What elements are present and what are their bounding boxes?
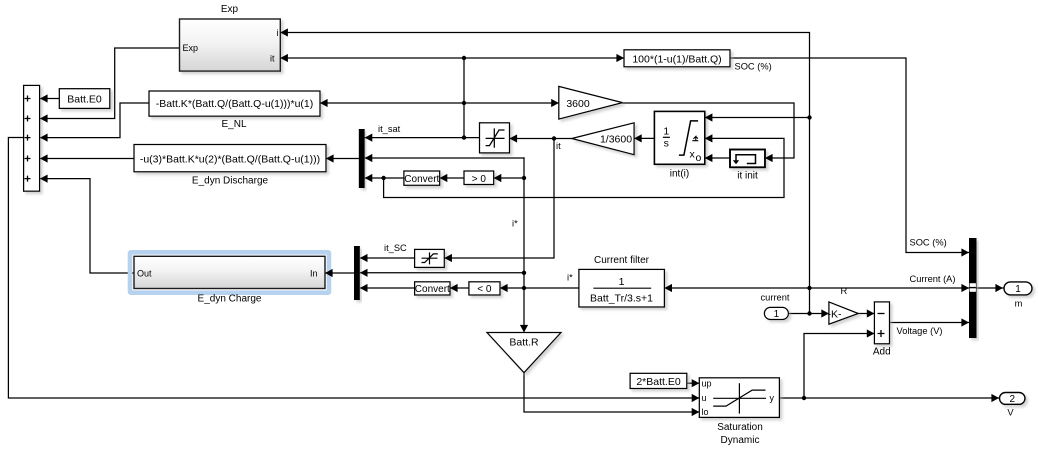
arrowhead into greater than bbox=[494, 174, 502, 182]
arrowheads into output mux bbox=[961, 248, 969, 256]
arrowhead into it init bbox=[765, 154, 773, 162]
svg-text:1: 1 bbox=[619, 276, 625, 288]
mux it_sat bbox=[359, 129, 365, 188]
subsystem Exp bbox=[180, 19, 281, 71]
svg-text:s: s bbox=[664, 138, 669, 150]
wire SOC Fcn output to output mux input 1 bbox=[730, 58, 969, 253]
wire it_sat line to Exp it input and SOC Fcn bbox=[280, 57, 624, 59]
arrowhead into E_dyn Discharge bbox=[326, 154, 334, 162]
svg-text:Current (A): Current (A) bbox=[910, 274, 956, 284]
arrowheads into mux it_SC bbox=[360, 254, 368, 262]
arrowhead into E_NL bbox=[320, 99, 328, 107]
wire it_SC saturation output to mux it_SC input 1 bbox=[360, 257, 415, 259]
svg-text:it init: it init bbox=[737, 171, 758, 182]
gain R (-K-) bbox=[828, 302, 859, 324]
subsystem E_dyn Charge selection highlight bbox=[130, 252, 329, 292]
Fcn SOC bbox=[624, 50, 730, 67]
arrowhead into 3600 gain bbox=[551, 99, 559, 107]
svg-text:E_dyn Charge: E_dyn Charge bbox=[198, 294, 262, 305]
sum block bbox=[24, 85, 40, 191]
svg-text:2*Batt.E0: 2*Batt.E0 bbox=[636, 376, 681, 388]
svg-text:E_dyn Discharge: E_dyn Discharge bbox=[192, 175, 269, 186]
svg-text:Dynamic: Dynamic bbox=[721, 435, 760, 446]
svg-text:3600: 3600 bbox=[566, 98, 590, 110]
wire E_dyn Charge Out to sum input 5 bbox=[40, 179, 134, 273]
wire y branch to Add plus input bbox=[804, 334, 874, 399]
svg-text:> 0: > 0 bbox=[472, 174, 487, 185]
constant Batt.E0 bbox=[59, 89, 110, 109]
svg-text:< 0: < 0 bbox=[477, 284, 492, 295]
wire sum output to Saturation Dynamic u input bbox=[8, 138, 699, 399]
wire 3600 gain output to it init input bbox=[623, 103, 795, 158]
svg-text:y: y bbox=[770, 393, 775, 403]
svg-text:V: V bbox=[1007, 408, 1014, 418]
wire mux it_sat output to E_dyn Discharge input bbox=[326, 158, 359, 160]
arrowhead into Exp i bbox=[280, 28, 288, 36]
arrowhead into R gain bbox=[821, 309, 829, 317]
arrowhead into Batt.R bbox=[520, 325, 528, 333]
outport 2 V bbox=[1000, 393, 1026, 406]
integrator int(i) bbox=[654, 111, 704, 164]
arrowhead into outport m bbox=[995, 284, 1003, 292]
arrowhead into outport V bbox=[991, 394, 999, 402]
wire R gain output to Add minus input bbox=[858, 313, 874, 315]
wire current inport to R gain bbox=[788, 313, 829, 315]
arrowhead into Convert2 bbox=[450, 284, 458, 292]
wire Convert2 output to mux it_SC input 3 bbox=[360, 287, 415, 289]
data type Convert bbox=[404, 171, 440, 185]
wire Batt.R output to Saturation Dynamic lo input bbox=[524, 373, 699, 412]
wire i* to mux it_sat input 2 bbox=[365, 157, 524, 159]
output mux bbox=[969, 238, 977, 338]
svg-text:R: R bbox=[841, 286, 848, 296]
svg-text:u: u bbox=[702, 393, 707, 403]
wire 2*Batt.E0 output to Saturation Dynamic up input bbox=[687, 382, 699, 384]
wire Exp subsystem output to sum input 2 bbox=[40, 48, 180, 119]
svg-text:1/3600: 1/3600 bbox=[600, 134, 632, 146]
wire E_dyn Discharge output to sum input 4 bbox=[40, 158, 134, 160]
wire Convert branch to integrator reset input bbox=[384, 138, 784, 197]
svg-text:i*: i* bbox=[512, 219, 518, 229]
wire output mux to outport m bbox=[977, 287, 1004, 289]
svg-text:In: In bbox=[310, 269, 318, 279]
wire current i line to Exp i input bbox=[280, 33, 810, 314]
wire it_sat vertical branch bbox=[463, 58, 465, 138]
arrowhead into Convert bbox=[440, 174, 448, 182]
svg-text:Convert: Convert bbox=[404, 174, 439, 185]
arrowhead into less than bbox=[500, 284, 508, 292]
svg-text:Current filter: Current filter bbox=[594, 255, 650, 266]
wire current line to Current filter and output mux input 2 bbox=[664, 287, 969, 289]
svg-text:lo: lo bbox=[702, 407, 709, 417]
arrowheads into saturation dynamic bbox=[692, 379, 700, 387]
svg-text:o: o bbox=[696, 152, 702, 164]
arrowheads into integrator bbox=[705, 113, 713, 121]
svg-text:100*(1-u(1)/Batt.Q): 100*(1-u(1)/Batt.Q) bbox=[632, 53, 721, 65]
wire i* vertical to Batt.R bbox=[523, 158, 525, 331]
wire saturation output it_sat to mux it_sat input 1 bbox=[365, 137, 480, 139]
arrowheads into sum block bbox=[40, 94, 48, 102]
arrowhead into saturation it_sat bbox=[510, 134, 518, 142]
saturation dynamic block bbox=[699, 378, 779, 418]
svg-text:Batt_Tr/3.s+1: Batt_Tr/3.s+1 bbox=[590, 293, 653, 305]
constant 2*Batt.E0 bbox=[630, 373, 687, 388]
saturation block (it_SC) bbox=[415, 249, 445, 267]
wire less-than output to Convert2 bbox=[450, 287, 469, 289]
svg-text:Voltage (V): Voltage (V) bbox=[897, 326, 943, 336]
sum Add bbox=[874, 302, 889, 344]
wire integrator output to 1/3600 gain bbox=[634, 137, 654, 139]
wire i* branch to greater-than block bbox=[494, 177, 524, 179]
svg-text:Exp: Exp bbox=[183, 43, 199, 53]
svg-text:SOC (%): SOC (%) bbox=[910, 238, 947, 248]
svg-text:E_NL: E_NL bbox=[221, 119, 246, 130]
arrowhead into Current filter bbox=[664, 284, 672, 292]
svg-text:SOC (%): SOC (%) bbox=[735, 62, 772, 72]
transfer fcn Current filter bbox=[579, 269, 665, 307]
svg-text:m: m bbox=[1015, 299, 1023, 309]
svg-text:1: 1 bbox=[663, 126, 669, 138]
arrowheads into Add bbox=[867, 309, 875, 317]
wire it init output to integrator x0 input bbox=[705, 157, 730, 159]
svg-text:Batt.R: Batt.R bbox=[509, 337, 539, 349]
svg-text:-u(3)*Batt.K*u(2)*(Batt.Q/(Bat: -u(3)*Batt.K*u(2)*(Batt.Q/(Batt.Q-u(1))) bbox=[140, 153, 320, 165]
arrowhead into saturation it_SC bbox=[444, 254, 452, 262]
wire Add output to output mux input 3 bbox=[890, 322, 970, 324]
svg-text:current: current bbox=[761, 293, 790, 303]
gain 1/3600 bbox=[572, 123, 634, 155]
svg-text:-K-: -K- bbox=[828, 308, 843, 320]
wire Saturation Dynamic y output to outport V bbox=[779, 397, 999, 399]
svg-text:Add: Add bbox=[873, 347, 891, 358]
svg-text:2: 2 bbox=[1010, 394, 1016, 405]
svg-text:i*: i* bbox=[567, 273, 573, 283]
svg-text:-Batt.K*(Batt.Q/(Batt.Q-u(1))): -Batt.K*(Batt.Q/(Batt.Q-u(1)))*u(1) bbox=[156, 98, 314, 110]
arrowhead into E_dyn Charge In bbox=[325, 269, 333, 277]
svg-text:i: i bbox=[277, 28, 279, 38]
svg-text:Exp: Exp bbox=[221, 4, 239, 15]
Fcn E_NL bbox=[149, 91, 320, 116]
svg-text:it: it bbox=[270, 54, 275, 64]
wire greater-than output to Convert bbox=[440, 177, 464, 179]
arrowhead into SOC Fcn bbox=[616, 54, 624, 62]
subsystem E_dyn Charge bbox=[134, 256, 325, 288]
svg-text:1: 1 bbox=[774, 309, 780, 320]
svg-text:Batt.E0: Batt.E0 bbox=[67, 93, 102, 105]
IC block it init bbox=[730, 150, 765, 168]
svg-text:it_SC: it_SC bbox=[384, 243, 407, 253]
mux it_SC bbox=[354, 246, 360, 300]
arrowhead into 1/3600 gain bbox=[634, 134, 642, 142]
svg-text:Convert: Convert bbox=[415, 284, 450, 295]
gain Batt.R bbox=[487, 333, 561, 373]
wire Batt.E0 to sum input 1 bbox=[40, 98, 59, 100]
wire i* branch to mux it_SC input 2 bbox=[360, 272, 524, 274]
gain 3600 bbox=[559, 86, 623, 119]
wire mux it_SC output to E_dyn Charge In bbox=[325, 272, 354, 274]
arrowhead into Exp it bbox=[280, 54, 288, 62]
saturation block (it_sat) bbox=[480, 123, 510, 153]
wire Convert output to mux it_sat input 3 bbox=[365, 177, 404, 179]
arrowheads into mux it_sat bbox=[365, 134, 373, 142]
wire it_sat branch to E_NL input and 3600 gain bbox=[320, 102, 559, 104]
wire 1/3600 output to saturation bbox=[510, 138, 572, 140]
svg-text:Out: Out bbox=[137, 269, 152, 279]
svg-text:int(i): int(i) bbox=[670, 169, 689, 180]
svg-text:it: it bbox=[556, 141, 561, 151]
wire current branch to integrator input 1 bbox=[705, 117, 810, 119]
outport 1 m bbox=[1004, 282, 1032, 295]
wire Current filter output i* to less-than block bbox=[500, 287, 579, 289]
wire E_NL output to sum input 3 bbox=[40, 103, 149, 138]
svg-text:Saturation: Saturation bbox=[717, 422, 763, 433]
inport current bbox=[764, 307, 788, 320]
junction dots bbox=[462, 56, 466, 60]
wire it branch down to it_SC saturation bbox=[444, 139, 554, 259]
svg-text:up: up bbox=[702, 379, 712, 389]
Fcn E_dyn Discharge bbox=[134, 145, 326, 172]
svg-text:1: 1 bbox=[1015, 284, 1021, 295]
svg-text:it_sat: it_sat bbox=[378, 124, 401, 134]
compare greater than zero bbox=[464, 171, 494, 185]
compare less than zero bbox=[469, 282, 500, 295]
data type Convert 2 bbox=[415, 282, 450, 295]
